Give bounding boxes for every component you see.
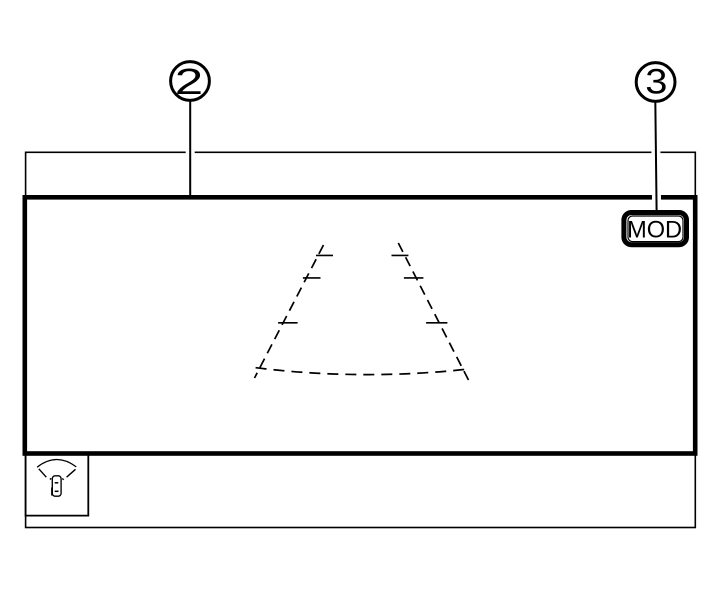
monitor bezel outline (26, 152, 696, 527)
left guide tick 3 (278, 322, 298, 324)
car icon left door edge (51, 488, 53, 496)
callout circle 3 (636, 63, 675, 102)
left guide line (dashed) (255, 245, 324, 378)
right guide tick 2 (404, 277, 424, 279)
left guide tick 1 (316, 254, 333, 256)
car icon body (52, 476, 61, 496)
car icon right mirror (62, 479, 64, 480)
left guide tick 2 (303, 277, 321, 279)
svg-text:MOD: MOD (627, 216, 682, 243)
sonar indicator box (26, 455, 89, 516)
right guide tick 1 (392, 254, 409, 256)
callout circle 2 (171, 62, 210, 101)
sonar beam arc (37, 460, 76, 468)
right guide line (dashed) (398, 243, 468, 380)
MOD button outer frame (624, 213, 687, 245)
callout leader line 3 casing (655, 100, 656, 209)
callout leader line 2 casing (186, 100, 195, 196)
svg-text:2: 2 (175, 62, 203, 102)
car icon windshield (55, 482, 59, 484)
bottom guide curve (dashed) (256, 368, 466, 375)
display screen panel (25, 197, 695, 453)
sonar beam left edge (39, 469, 47, 477)
svg-text:3: 3 (645, 62, 667, 101)
car icon left mirror (50, 478, 51, 479)
MOD button inner frame (628, 216, 683, 242)
car icon rear window (55, 490, 59, 492)
callout leader line 2 (189, 100, 191, 198)
right guide tick 3 (426, 322, 447, 324)
sonar beam right edge (67, 469, 76, 477)
callout leader line 3 (655, 100, 656, 211)
